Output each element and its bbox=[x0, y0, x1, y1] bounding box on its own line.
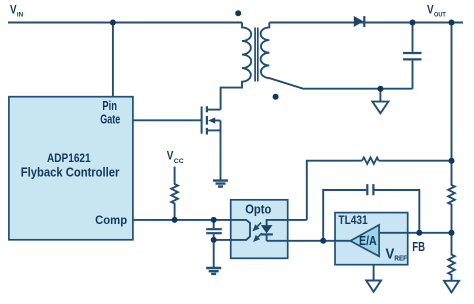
svg-text:REF: REF bbox=[394, 255, 407, 262]
svg-text:V: V bbox=[386, 246, 395, 262]
svg-text:E/A: E/A bbox=[359, 234, 377, 248]
svg-text:FB: FB bbox=[412, 239, 425, 254]
svg-text:Gate: Gate bbox=[100, 112, 120, 126]
svg-text:Flyback Controller: Flyback Controller bbox=[21, 166, 120, 180]
svg-text:OUT: OUT bbox=[434, 12, 446, 19]
svg-text:Pin: Pin bbox=[102, 99, 117, 113]
svg-text:IN: IN bbox=[17, 12, 24, 19]
svg-text:ADP1621: ADP1621 bbox=[47, 151, 91, 165]
svg-text:TL431: TL431 bbox=[338, 213, 367, 227]
svg-text:Comp: Comp bbox=[95, 213, 127, 227]
svg-text:Opto: Opto bbox=[245, 203, 271, 217]
svg-text:CC: CC bbox=[174, 158, 184, 165]
